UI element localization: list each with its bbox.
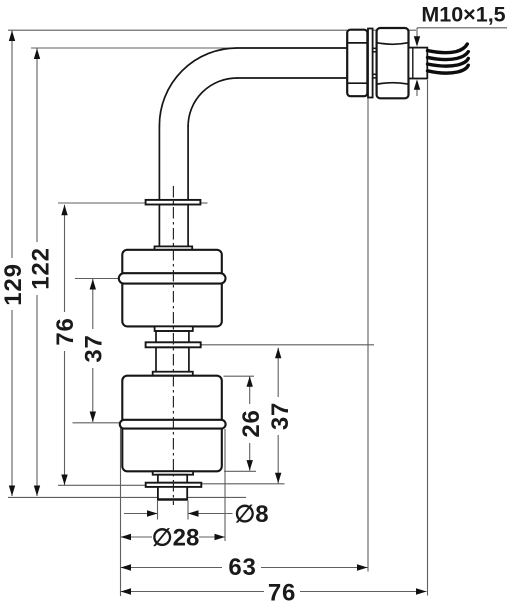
svg-text:37: 37 [81,334,108,362]
flange 2 (between floats) [146,342,201,347]
float 1 body [122,250,222,327]
stem above bottom flange [158,475,187,483]
extension line flange1 right [200,202,207,204]
arrow up 122 [34,49,40,60]
extension line bottom flange right [202,483,285,485]
svg-text:∅28: ∅28 [152,525,200,552]
arrow up 37 right [275,348,281,359]
extension line vertical float left (dia28/63/76 ref) [120,427,122,596]
arrow down 37 right [275,473,281,484]
extension line bottom reference [8,496,246,498]
extension line flange1 left [58,202,146,204]
stem between floats lower [156,347,189,372]
svg-text:76: 76 [52,317,79,345]
extension line vertical end-cap right (dia8) [187,501,189,520]
svg-text:129: 129 [0,263,27,305]
dimension line 63 [121,567,223,569]
arrow right dia28 [215,534,226,540]
tube vertical left edge [158,126,160,200]
tube horizontal bottom edge [237,77,347,79]
end cap [158,487,187,500]
svg-text:37: 37 [267,402,294,430]
svg-text:26: 26 [238,409,265,437]
arrow left dia8 right [188,510,199,516]
arrow up 26 [247,376,253,387]
boss above float2 [153,372,193,376]
tube vertical right edge [187,126,189,200]
arrow up 129 [9,31,15,42]
arrow down 129 [9,486,15,497]
extension line bottom flange left [58,484,150,486]
dimension line 26 [249,376,251,404]
stem below flange1 [159,205,188,247]
extension line tube top level [31,47,237,49]
arrow up 37 left [90,279,96,290]
arrow down 37 left [90,412,96,423]
arrow left 63 [121,564,132,570]
extension line vertical float right (dia28 ref) [224,429,226,541]
svg-text:M10×1,5: M10×1,5 [421,3,505,27]
dimension line 37 right [277,348,279,397]
svg-text:63: 63 [228,554,256,581]
threaded stub [409,48,428,79]
boss below float2 [153,471,193,474]
elbow tube inner arc [188,78,237,126]
flange 1 (top washer on tube) [146,200,201,205]
arrow left 76 bottom [121,588,132,594]
dimension line 129 [11,31,13,259]
hex nut 1 [347,30,367,97]
arrow up 76 left [61,205,67,216]
dimension line 122 [36,49,38,243]
washer between nuts [368,29,373,98]
arrow down M10 top [414,36,420,47]
extension line band2 left [73,422,120,424]
extension line float2 top right [224,375,255,377]
end cap bottom thick edge [158,498,187,500]
extension line band1 left [75,278,120,280]
dimension line dia28 [121,536,153,538]
elbow tube outer arc [159,48,237,126]
dimension line 76 left [64,205,66,312]
dimension line 37 left [92,279,94,329]
wire 4 [428,65,469,73]
tube lines in washer-nut gap [373,48,377,78]
leader line M10x1,5 [417,27,507,29]
band on float 2 [120,420,226,429]
svg-text:∅8: ∅8 [234,501,268,528]
arrow down 122 [34,486,40,497]
extension line vertical from stub end (76 ref) [427,80,429,596]
boss below float1 [155,326,193,331]
extension line vertical from washer (63 ref) [367,98,369,572]
arrow right dia8 left [147,510,158,516]
boss above float1 [155,246,193,250]
wire 2 [428,52,469,60]
stem between floats upper [156,331,189,342]
arrow right 76 bottom [416,588,427,594]
arrow right 63 [357,564,368,570]
wires [428,44,469,73]
hex nut 2 [377,28,409,98]
band on float 1 [119,273,226,283]
dimension line 76 bottom [121,591,265,593]
extension line top (overall top reference) [8,29,416,31]
wire 3 [428,58,469,66]
svg-text:122: 122 [28,247,55,289]
dimension line dia8 [124,513,158,515]
extension line vertical end-cap left (dia8) [157,501,159,520]
tube horizontal top edge [237,47,347,49]
arrow up M10 bottom [414,79,420,90]
bottom flange 3 [146,483,202,487]
extension line flange2 right [201,344,374,346]
centerline [172,186,174,505]
extension line float2 bottom right [224,470,256,472]
arrow left dia28 [121,534,132,540]
float 2 body [122,376,222,472]
arrow down 26 [247,460,253,471]
arrow down 76 left [61,475,67,486]
arrowheads [9,31,427,595]
svg-text:76: 76 [268,580,296,603]
wire 1 [428,44,468,53]
